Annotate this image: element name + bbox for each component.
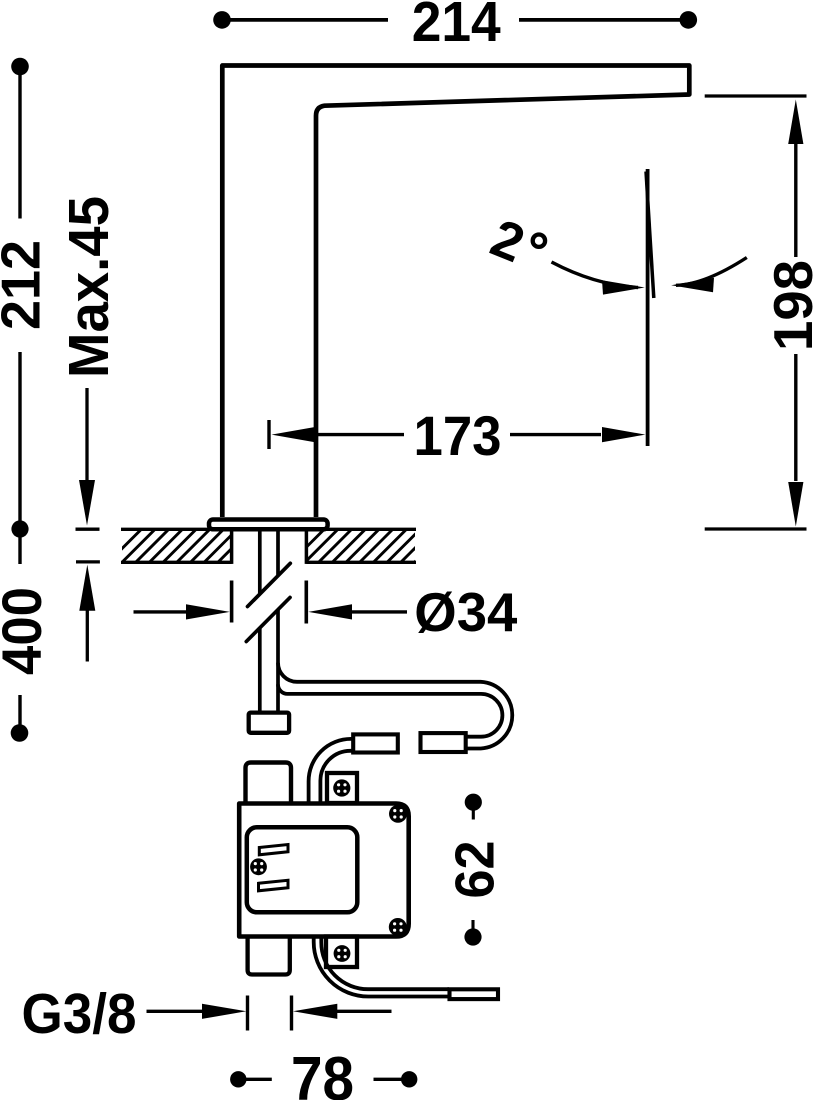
svg-text:198: 198 [762, 260, 816, 351]
svg-text:G3/8: G3/8 [22, 982, 137, 1046]
svg-text:400: 400 [0, 587, 53, 675]
svg-text:173: 173 [414, 404, 502, 467]
svg-text:Max.45: Max.45 [57, 196, 120, 378]
svg-text:78: 78 [291, 1045, 354, 1100]
svg-text:212: 212 [0, 240, 51, 330]
svg-text:62: 62 [444, 841, 506, 899]
svg-text:Ø34: Ø34 [414, 582, 518, 643]
svg-text:214: 214 [412, 0, 501, 54]
